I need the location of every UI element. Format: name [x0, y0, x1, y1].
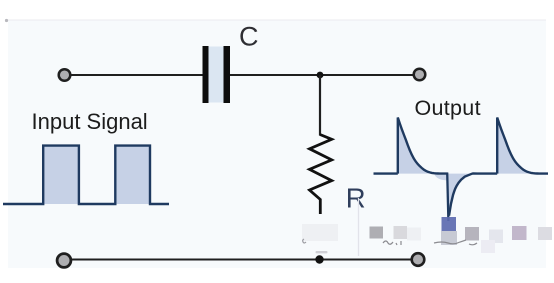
terminal T3 (bottom left) — [57, 254, 71, 268]
input waveform outline — [3, 146, 169, 204]
watermark squiggle 2 — [434, 240, 477, 245]
terminal T1 (top left) — [59, 69, 71, 81]
svg-text:R: R — [346, 183, 366, 214]
watermark faint dash near bottom junction — [316, 251, 328, 253]
watermark block (light, over resistor tail) — [302, 224, 338, 241]
output waveform baseline left + spike1 — [374, 118, 448, 174]
capacitor C1 gap dielectric — [209, 47, 224, 103]
output waveform under-baseline patch left of drop — [435, 175, 448, 181]
svg-text:Output: Output — [415, 96, 481, 120]
watermark block purple — [512, 226, 527, 240]
input waveform pulse 2 fill — [115, 146, 150, 204]
watermark block gray 1 — [370, 227, 384, 239]
terminal T4 (bottom right) — [412, 253, 425, 266]
wire: top-left segment (T1 to capacitor) — [70, 74, 203, 76]
wire: top-right segment (capacitor to T2) — [230, 74, 413, 76]
watermark block faint 1 — [407, 228, 421, 241]
output waveform negative spike recovery and baseline — [449, 118, 548, 216]
output waveform negative wedge fill — [447, 173, 477, 215]
bottom wire — [70, 259, 412, 261]
resistor R1 — [310, 135, 332, 215]
node A (top junction) — [317, 72, 324, 79]
watermark block light 3 — [538, 227, 552, 240]
watermark squiggle 1 — [383, 241, 401, 245]
watermark block below indigo — [441, 231, 457, 245]
capacitor C1 right plate — [224, 46, 231, 103]
watermark block light 2 — [489, 230, 503, 244]
watermark block indigo (covers spike tip) — [442, 217, 457, 231]
watermark block faint 2 — [481, 240, 495, 253]
watermark faint vertical artifact — [358, 198, 360, 256]
output waveform negative spike drop — [447, 173, 448, 222]
output waveform spike 1 fill — [398, 118, 442, 174]
svg-text:C: C — [239, 21, 259, 51]
wire: vertical drop from node A to resistor — [319, 75, 321, 136]
node B (bottom junction) — [315, 255, 323, 263]
output waveform spike 2 fill — [497, 118, 541, 174]
corner speck artifact — [5, 19, 8, 22]
watermark block gray 2 — [465, 227, 479, 241]
terminal T2 (top right) — [414, 69, 426, 81]
panel top edge — [8, 19, 546, 21]
watermark block light 1 — [394, 226, 408, 239]
svg-text:Input Signal: Input Signal — [32, 109, 148, 134]
watermark squiggle 3 — [303, 239, 306, 243]
capacitor C1 left plate — [203, 46, 209, 103]
input waveform pulse 1 fill — [43, 146, 79, 204]
